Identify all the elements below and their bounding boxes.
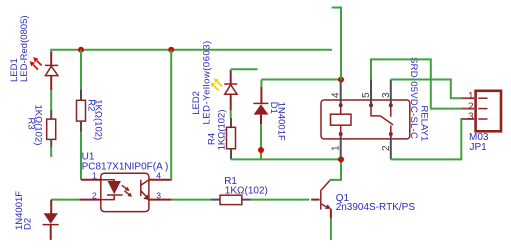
diode D1 1N4001F [253,87,286,141]
wire bottom rail R4/D1/relay pin1 [231,158,341,160]
svg-text:D2: D2 [23,218,34,230]
wire LED2/D1 top link [231,68,258,70]
resistor R3 1KΩ(102) [25,105,55,148]
svg-text:1: 1 [468,91,474,102]
diode D2 1N4001F [14,191,59,240]
wire LED2 to R4 [230,110,232,118]
wire relay pin3 to JP1 pin1 [391,80,462,99]
svg-text:2n3904S-RTK/PS: 2n3904S-RTK/PS [336,202,416,213]
wire R3 bottom stub [50,148,52,157]
LED1 LED-Red(0805) [9,15,58,90]
wire D2 to U1 pin2 [51,199,79,201]
node junction rail/R2 [78,47,84,53]
connector JP1 M03 [462,91,502,153]
svg-text:2: 2 [468,101,474,112]
pin 2 [79,199,101,201]
op-amp U1 PC817X1NIP0F(A) optocoupler [79,151,172,211]
wire R1 to Q1 base [251,199,310,201]
wire R2 column from rail [80,50,82,90]
svg-text:1: 1 [331,145,342,151]
svg-text:2: 2 [381,145,392,151]
svg-text:LED-Yellow(0603): LED-Yellow(0603) [202,40,213,124]
svg-text:PC817X1NIP0F(A ): PC817X1NIP0F(A ) [82,161,169,172]
internal phototransistor [140,180,142,197]
wire D1 top stub [260,80,262,87]
wire Q1 collector to relay pin1 [330,159,341,180]
internal LED [101,180,114,181]
resistor R4 1KΩ(102) [206,109,235,159]
switch [369,103,373,107]
svg-text:RELAY1: RELAY1 [419,106,430,142]
wire U1 pin4 riser to rail [170,50,172,180]
svg-text:1KΩ(102): 1KΩ(102) [216,109,227,150]
pin 4 [149,179,172,181]
wire LED1 to R3 [50,90,52,110]
pin 1 [462,97,476,99]
node junction coil rail / relay riser [338,77,344,83]
svg-text:1KΩ(102): 1KΩ(102) [93,99,104,140]
pin 3 [462,118,476,120]
wire relay pin5 to JP1 pin2 [371,59,462,108]
node junction D1/bottom [258,147,264,153]
LED2 LED-Yellow(0603) [191,40,237,124]
svg-text:3: 3 [156,190,161,200]
svg-text:3: 3 [468,112,474,123]
wire R2 to U1 pin1 [80,132,82,180]
svg-text:1N4001F: 1N4001F [275,102,286,141]
resistor R1 1KΩ(102) [211,176,268,205]
svg-text:2: 2 [92,190,97,200]
pin 2 [390,134,392,159]
svg-text:1KΩ(102): 1KΩ(102) [32,105,43,146]
svg-text:5: 5 [361,92,372,98]
pin 5 [370,80,372,106]
internal light arrows [122,185,132,196]
pin 2 [462,108,476,110]
wire relay supply riser [332,8,342,80]
wire Q1 emitter [330,219,332,240]
svg-text:3: 3 [381,92,392,98]
svg-text:1KΩ(102): 1KΩ(102) [225,186,268,197]
svg-text:LED2: LED2 [191,91,202,115]
wire coil top rail: D1 top to relay pin4 [261,79,341,81]
pin 1 [81,179,101,181]
node junction rail/U1 pin4 riser [168,47,174,53]
wire top rail net VCC [51,49,332,51]
wire D1 bottom [260,124,262,159]
pin 4 [340,80,342,106]
svg-text:4: 4 [331,92,342,98]
resistor R2 1KΩ(102) [77,89,104,140]
svg-text:SRD-05VDC-SL-C: SRD-05VDC-SL-C [408,57,419,139]
svg-text:LED-Red(0805): LED-Red(0805) [19,15,30,82]
pin 1 [340,134,342,159]
svg-text:JP1: JP1 [470,142,488,153]
wire relay pin2 to JP1 pin3 [391,119,462,159]
node junction relay pin1 / collector [338,156,344,162]
wire U1 pin3 to R1 [171,199,211,201]
transistor Q1 2n3904S-RTK/PS [311,180,415,219]
pin 3 [149,199,171,201]
relay RELAY1 SRD-05VDC-SL-C [321,57,430,159]
pin 3 [390,80,392,106]
coil [339,103,343,107]
wire LED1 top stub [50,49,52,53]
